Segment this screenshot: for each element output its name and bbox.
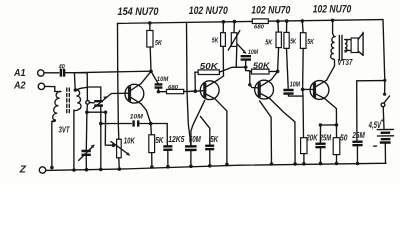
wire trimmer column down <box>99 106 103 171</box>
resistor 20K <box>301 133 319 165</box>
svg-text:10M: 10M <box>290 81 300 88</box>
label 102 NU70 stage3 <box>251 5 291 17</box>
label 3VT <box>59 126 71 135</box>
capacitor 25M emitter <box>315 123 336 165</box>
transistor T3 <box>255 80 274 99</box>
wire T1 emitter <box>141 104 152 125</box>
resistor 50K stage2 <box>195 62 220 91</box>
wire rail drop x186 <box>187 22 192 145</box>
svg-text:5K: 5K <box>290 37 296 46</box>
capacitor 40 <box>58 64 65 77</box>
svg-text:12K5: 12K5 <box>168 135 185 144</box>
wire feedback y71 <box>74 71 151 73</box>
svg-text:25M: 25M <box>352 131 365 140</box>
capacitor 10M inline <box>130 113 167 126</box>
potentiometer 10K <box>111 137 136 158</box>
wire T2 collector <box>217 76 224 80</box>
rheostat stage2 <box>228 20 240 68</box>
label 102 NU70 stage4 <box>313 4 352 16</box>
svg-text:Z: Z <box>19 165 27 176</box>
resistor 5K c stage4 <box>300 19 314 138</box>
variable capacitor tuning <box>79 144 95 171</box>
capacitor 10M stage1 coupling <box>152 72 169 93</box>
resistor 5K a stage3 <box>265 19 281 71</box>
wire capacitor 40 to coil top <box>66 73 78 92</box>
wire rail right drop <box>383 20 386 96</box>
svg-text:50M: 50M <box>189 135 201 144</box>
speaker <box>351 32 363 55</box>
wire T1 collector <box>141 71 151 83</box>
tuning coil secondary <box>72 90 81 172</box>
switch <box>381 96 390 129</box>
resistor 50K stage3 <box>246 62 280 87</box>
wiper to capacitor 10M stage2 <box>237 44 247 54</box>
resistor 680 on rail <box>252 19 268 30</box>
transistor T1 <box>125 83 144 104</box>
terminal A1 <box>13 68 44 79</box>
wire rail left drop <box>117 23 119 71</box>
label 4,5V <box>368 119 384 131</box>
svg-text:10M: 10M <box>157 76 169 83</box>
svg-text:VT37: VT37 <box>337 58 352 67</box>
terminal A2 <box>13 81 44 92</box>
wire T4 collector to transformer <box>327 61 335 80</box>
wire y123 branch <box>101 123 132 125</box>
resistor 680 stage1 <box>158 85 183 94</box>
resistor 5K b stage3 <box>284 19 297 88</box>
wire stage3 base <box>250 85 258 88</box>
svg-text:+: + <box>380 119 384 125</box>
capacitor 10M stage3 coupling <box>283 81 303 96</box>
wire A1 node to trimmer branch <box>74 73 87 101</box>
resistor 50 <box>333 125 348 165</box>
svg-text:102 NU70: 102 NU70 <box>189 5 229 17</box>
wire 680 to T2 base <box>184 89 205 93</box>
svg-text:680: 680 <box>254 24 265 30</box>
svg-text:10K: 10K <box>124 137 136 146</box>
wire coil top to trimmer loop <box>75 87 100 100</box>
capacitor 5K emitter T2 <box>205 135 219 168</box>
capacitor 25M battery <box>352 131 365 165</box>
svg-text:5K: 5K <box>155 136 164 145</box>
trimmer capacitor <box>86 93 129 108</box>
svg-text:50: 50 <box>340 133 348 142</box>
wire A2 to antenna coil <box>45 86 61 91</box>
wire T4 base <box>303 88 314 90</box>
transformer VT37 core <box>339 35 342 60</box>
capacitor 12K5 <box>163 124 185 169</box>
transistor T2 <box>200 80 219 99</box>
label 154 NU70 <box>118 6 160 18</box>
svg-text:5K: 5K <box>210 135 219 144</box>
resistor 5K stage1 <box>147 21 162 73</box>
svg-text:5K: 5K <box>155 38 162 47</box>
resistor 5K emitter T1 <box>149 124 165 169</box>
transformer core dashed <box>67 88 70 114</box>
terminal Z <box>19 165 46 176</box>
top supply rail <box>118 20 384 24</box>
wire T3 emitter left <box>260 101 274 166</box>
capacitor 50M <box>185 135 201 168</box>
svg-text:3VT: 3VT <box>59 126 71 135</box>
svg-text:10M: 10M <box>130 113 143 120</box>
antenna coil primary <box>52 91 61 167</box>
svg-text:102 NU70: 102 NU70 <box>313 4 352 16</box>
capacitor 10M stage2 <box>241 50 259 70</box>
wire T3 emitter right <box>270 98 297 165</box>
output transformer VT37 primary <box>331 37 336 61</box>
svg-text:A2: A2 <box>13 81 26 92</box>
wire trimmer circle down to var-cap <box>85 104 89 150</box>
label VT37 <box>337 58 352 67</box>
wire T4 emitter <box>325 99 339 127</box>
wire 50K right to pot column <box>219 67 247 72</box>
wire T3 collector <box>271 71 277 79</box>
svg-text:5K: 5K <box>265 37 272 46</box>
wire A1 to capacitor 40 <box>44 72 59 74</box>
svg-text:A1: A1 <box>13 68 26 79</box>
wire rail to potentiometer column <box>118 71 122 171</box>
label 102 NU70 stage2 <box>189 5 229 17</box>
wire rail to output transformer <box>331 19 335 37</box>
transistor T4 <box>310 80 329 99</box>
svg-text:102 NU70: 102 NU70 <box>251 5 291 17</box>
svg-text:154 NU70: 154 NU70 <box>118 6 160 18</box>
wire T2 emitter left to 50M <box>191 100 205 145</box>
wire T2 emitter right to rail <box>215 99 229 166</box>
wire battery bypass branch <box>357 81 385 141</box>
resistor 5K stage2 <box>212 20 226 76</box>
bottom ground rail <box>46 163 386 170</box>
svg-text:5K: 5K <box>212 36 219 45</box>
battery 4.5V <box>374 129 394 163</box>
wire wiper branch <box>87 112 114 145</box>
transformer VT37 secondary <box>345 39 351 52</box>
wire T2 emitter branch to 5K cap <box>200 116 209 145</box>
svg-text:5K: 5K <box>307 37 314 46</box>
